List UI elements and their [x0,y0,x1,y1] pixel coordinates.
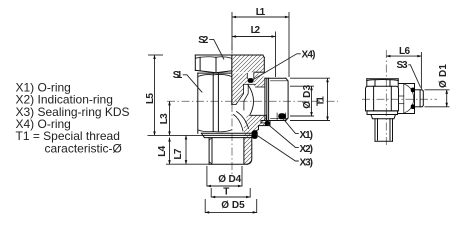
svg-text:Ø D1: Ø D1 [438,64,449,88]
svg-text:L4: L4 [157,145,168,156]
svg-text:L3: L3 [159,113,170,124]
svg-text:X4): X4) [302,49,316,60]
svg-text:Ø D4: Ø D4 [218,174,241,185]
svg-text:X3): X3) [300,158,314,169]
svg-text:S1: S1 [173,70,183,81]
svg-text:X2): X2) [300,144,314,155]
svg-text:caracteristic-Ø: caracteristic-Ø [45,141,122,155]
svg-text:S2: S2 [198,35,208,46]
svg-text:L1: L1 [256,7,266,18]
svg-text:Ø D3: Ø D3 [302,84,313,108]
svg-text:L2: L2 [251,25,261,36]
svg-text:L6: L6 [399,46,410,57]
svg-text:L7: L7 [173,148,184,159]
svg-text:S3: S3 [397,60,408,71]
svg-text:Ø D5: Ø D5 [221,200,245,211]
svg-text:T: T [223,186,229,197]
svg-text:T1: T1 [316,96,327,106]
svg-text:L5: L5 [145,93,156,104]
svg-text:X1): X1) [300,130,314,141]
